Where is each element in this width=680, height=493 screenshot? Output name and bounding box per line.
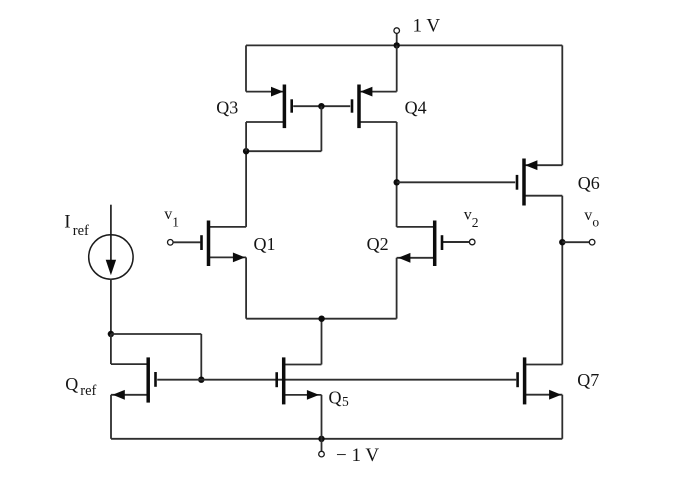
node bias gate-line junction (198, 377, 204, 383)
label Iref (64, 211, 89, 239)
wire top supply rail (246, 44, 562, 46)
wire Q1 drain up to Q3 node (245, 151, 247, 227)
transistor Q2 (397, 221, 442, 267)
label -1 V (336, 445, 379, 466)
transistor Q3 (246, 85, 292, 129)
label v1 (164, 206, 179, 229)
wire Q5 source to negative rail (321, 395, 323, 439)
label Q3 (216, 97, 238, 117)
wire Q1 source down to tail (245, 257, 247, 318)
wire Q3 gate to Q4 gate (293, 105, 350, 107)
wire Q6 drain to output node (561, 196, 563, 243)
node Q3/Q4 gate junction (318, 103, 324, 109)
wire tail rail (246, 318, 397, 320)
label Q7 (577, 370, 599, 390)
current source Iref (89, 235, 133, 279)
wire Qref source to negative rail (110, 395, 112, 439)
transistor Q1 (202, 221, 247, 267)
wire gate junction down to Q3 drain (246, 106, 321, 151)
label Qref (65, 374, 96, 399)
label 1 V (413, 16, 441, 37)
wire rail drop to Q4 source (396, 45, 398, 91)
terminal vo (562, 239, 595, 245)
terminal v2 (442, 239, 475, 245)
transistor Q6 (517, 159, 562, 206)
svg-text:ref: ref (73, 223, 89, 239)
svg-text:v: v (584, 207, 592, 224)
svg-text:o: o (592, 214, 599, 229)
wire rail drop to Q6 source (561, 45, 563, 165)
label Q2 (367, 234, 389, 254)
wire Q2 drain up to Q6-gate node (396, 182, 398, 227)
label Q5 (329, 387, 350, 409)
label v2 (464, 207, 479, 231)
transistor Q5 (277, 357, 322, 404)
node tail junction (318, 316, 324, 322)
svg-text:Q2: Q2 (367, 234, 389, 254)
node Q6 gate junction (394, 179, 400, 185)
wire bias gate line Qref-Q5-Q7 (157, 379, 516, 381)
wire negative supply rail (111, 438, 562, 440)
svg-text:1 V: 1 V (413, 16, 441, 37)
svg-text:Q3: Q3 (216, 97, 238, 117)
svg-text:2: 2 (472, 215, 479, 230)
node Q3 drain junction (243, 148, 249, 154)
label vo (584, 207, 599, 230)
svg-text:Q7: Q7 (577, 370, 599, 390)
wire Iref to junction (110, 279, 112, 334)
terminal +1V (394, 28, 400, 34)
transistor Q7 (518, 357, 563, 404)
wire junction to Qref drain (110, 334, 112, 364)
svg-text:1: 1 (172, 215, 179, 230)
wire Q4 drain down to Q6-gate node (396, 122, 398, 182)
node 1V supply junction (394, 42, 400, 48)
label Q4 (405, 97, 427, 117)
transistor Q4 (352, 85, 397, 129)
wire Q7 source to negative rail (561, 395, 563, 439)
svg-text:I: I (64, 211, 70, 232)
svg-text:− 1 V: − 1 V (336, 445, 379, 466)
wire Q5 drain to tail node (321, 319, 323, 365)
svg-text:5: 5 (342, 394, 349, 409)
wire Q2 source down to tail (396, 258, 398, 319)
svg-text:v: v (164, 206, 172, 223)
node -1V supply junction (318, 436, 324, 442)
wire junction to bias gate line (111, 334, 201, 380)
terminal -1V (319, 451, 325, 457)
wire 1V terminal stub (396, 33, 398, 45)
wire Q6 gate line (397, 181, 516, 183)
node output junction (559, 239, 565, 245)
svg-text:Q1: Q1 (254, 234, 276, 254)
svg-text:Q4: Q4 (405, 97, 427, 117)
svg-text:Q: Q (329, 387, 342, 407)
wire Q3 drain down (245, 122, 247, 151)
svg-text:ref: ref (80, 383, 96, 399)
svg-text:Q: Q (65, 374, 78, 394)
svg-text:Q6: Q6 (578, 173, 600, 193)
transistor Qref (111, 357, 156, 402)
label Q6 (578, 173, 600, 193)
wire Q7 drain to output node (561, 242, 563, 364)
label Q1 (254, 234, 276, 254)
wire -1V terminal stub (321, 439, 323, 452)
wire rail drop to Q3 source (245, 45, 247, 91)
terminal v1 (168, 240, 201, 246)
node Iref/Qref drain junction (108, 331, 114, 337)
svg-text:v: v (464, 207, 472, 224)
wire Iref top stub (110, 205, 112, 236)
